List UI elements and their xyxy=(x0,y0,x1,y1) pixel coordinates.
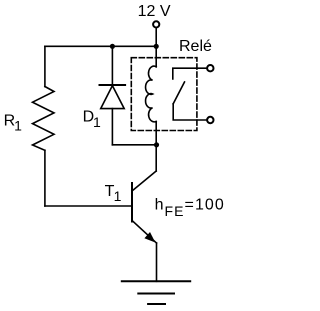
junction node top-diode xyxy=(110,44,115,49)
wire diode bottom horizontal xyxy=(112,144,156,146)
coil (relay winding) xyxy=(146,46,157,145)
relay contact lower xyxy=(173,104,207,120)
wire top horizontal xyxy=(45,45,156,47)
wire left vertical lower xyxy=(44,150,46,206)
svg-text:Relé: Relé xyxy=(179,38,212,55)
relay box dashed xyxy=(131,58,197,131)
relay terminal top xyxy=(207,65,213,71)
resistor R1 xyxy=(33,87,55,151)
wire 12V drop xyxy=(155,28,157,47)
terminal 12V xyxy=(153,21,159,27)
junction node top-supply xyxy=(154,44,159,49)
junction node collector xyxy=(154,142,159,147)
wire base xyxy=(45,205,132,207)
relay contact fixed xyxy=(173,68,207,79)
ground xyxy=(122,281,190,304)
wire left vertical upper xyxy=(44,46,46,86)
relay terminal bottom xyxy=(207,117,213,123)
transistor T1 xyxy=(132,145,157,281)
relay contact arm xyxy=(173,82,184,104)
diode D1 xyxy=(100,46,126,145)
svg-text:12 V: 12 V xyxy=(138,3,171,20)
